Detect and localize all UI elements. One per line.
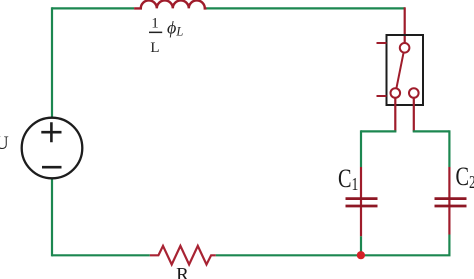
wire C1 bottom lead red xyxy=(360,207,362,236)
svg-text:C2: C2 xyxy=(456,163,474,193)
switch throw contact circle right xyxy=(409,88,419,98)
capacitor C2 bottom plate xyxy=(435,205,467,208)
resistor R xyxy=(150,246,216,265)
capacitor C2 top plate xyxy=(435,197,467,200)
switch S1 box xyxy=(387,35,424,105)
wire C2 top lead red xyxy=(448,167,450,207)
switch common contact circle xyxy=(400,43,410,53)
wire C2 bottom green corner xyxy=(361,235,449,256)
wire C2 bottom lead red xyxy=(448,207,450,235)
wire switch top lead (dark red) xyxy=(404,7,406,43)
junction node dot xyxy=(357,251,365,259)
wire C2 branch vertical green xyxy=(448,130,450,167)
wire left vertical lower xyxy=(51,179,53,257)
wire C1 bottom green xyxy=(360,236,362,255)
wire left vertical upper xyxy=(51,7,53,119)
inductor L (1/L phi_L) xyxy=(134,0,206,8)
svg-text:C1: C1 xyxy=(338,165,358,195)
switch throw contact circle left xyxy=(391,88,401,98)
label 1/L fraction bar xyxy=(149,32,162,33)
voltage source U circle xyxy=(22,118,83,179)
svg-text:L: L xyxy=(150,40,159,56)
capacitor C1 top plate xyxy=(346,197,378,200)
wire horizontal to C1 branch xyxy=(361,130,396,132)
wire C1 branch vertical green xyxy=(360,130,362,167)
wire switch right throw lead down xyxy=(413,98,415,132)
svg-text:ϕL: ϕL xyxy=(167,18,183,39)
wire bottom left green xyxy=(52,254,150,256)
voltage source plus sign xyxy=(41,122,61,142)
wire bottom middle green xyxy=(216,254,361,256)
wire switch left throw lead down xyxy=(394,98,396,132)
switch blade (diagonal) xyxy=(396,52,403,88)
wire C1 top lead red xyxy=(360,167,362,207)
capacitor C1 bottom plate xyxy=(346,205,378,208)
switch left terminal tick lower xyxy=(377,95,387,97)
wire top horizontal to switch xyxy=(207,7,406,9)
voltage source minus sign xyxy=(42,166,62,169)
svg-text:U: U xyxy=(0,133,9,154)
svg-text:1: 1 xyxy=(151,16,159,32)
switch left terminal tick upper xyxy=(377,42,387,44)
wire horizontal to C2 branch xyxy=(413,130,450,132)
wire top-left horizontal xyxy=(52,7,134,9)
svg-text:R: R xyxy=(176,265,189,279)
